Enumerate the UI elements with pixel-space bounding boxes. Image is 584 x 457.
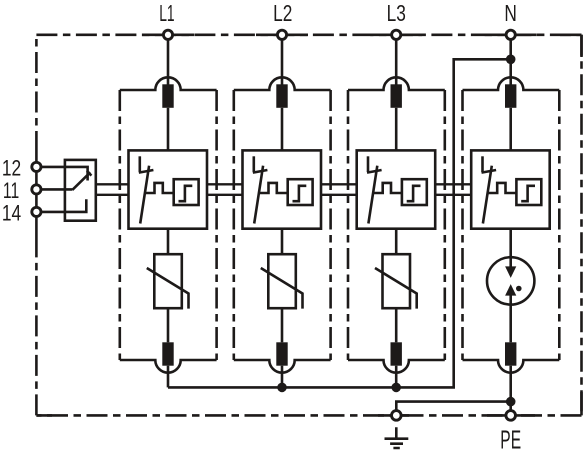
bottom disconnect element (filled) of N <box>505 342 516 365</box>
switch blade inside U4 <box>483 166 492 224</box>
module L1 boundary top edge with arc <box>120 77 217 90</box>
wire disconnect element to disconnector box N <box>509 108 512 151</box>
trigger box inside U3 <box>402 179 427 205</box>
terminal circle L2 <box>277 30 286 39</box>
junction dot L3 on bus <box>391 383 401 393</box>
step-function glyph inside trigger box U1 <box>179 186 193 201</box>
junction dot N-PE link <box>506 397 516 407</box>
contact tick inside U3 <box>367 170 382 173</box>
svg-text:12: 12 <box>2 155 21 180</box>
module L2 boundary bottom edge with arc <box>234 360 331 373</box>
outer dash-dot enclosure border top <box>36 33 581 36</box>
step-function glyph inside trigger box U3 <box>407 186 421 201</box>
mechanical linkage double line U1 to U2 <box>207 184 243 195</box>
varistor RV2 body <box>268 254 296 308</box>
wire varistor RV1 to bottom disconnect element <box>167 308 170 342</box>
mechanical linkage double line S1 to U1 <box>96 184 129 195</box>
thermal disconnect element (top, filled) of L2 <box>276 84 287 108</box>
wire terminal 12 to contact <box>41 167 87 181</box>
trigger box inside U4 <box>516 179 541 205</box>
MODULE L2 <box>234 40 331 388</box>
terminal circle 11 <box>32 185 41 194</box>
bottom disconnect element (filled) of L1 <box>162 342 173 365</box>
wire bottom element L1 to neutral bus <box>167 366 170 388</box>
bottom disconnect element (filled) of L3 <box>391 342 402 365</box>
terminal circle 14 <box>32 207 41 216</box>
blade tip tick of S1 <box>87 171 92 176</box>
earth ground symbol <box>385 427 409 448</box>
ground terminal circle <box>392 411 402 421</box>
remote signalling contact box S1 <box>65 160 96 221</box>
step-function glyph inside trigger box U2 <box>293 186 307 201</box>
wire terminal 14 to contact <box>41 199 86 212</box>
varistor RV2 diagonal stroke with hook <box>261 268 303 309</box>
wire disconnector box to varistor RV3 <box>395 229 398 255</box>
wire spark gap F1 to bottom disconnect element <box>509 295 512 342</box>
varistor RV1 diagonal stroke with hook <box>147 268 189 309</box>
outer dash-dot enclosure border left <box>35 35 38 416</box>
module L1 boundary right side dash-dot <box>215 90 218 360</box>
svg-text:11: 11 <box>3 178 19 203</box>
wire disconnector box to varistor RV2 <box>281 229 284 255</box>
wire varistor RV2 to bottom disconnect element <box>281 308 284 342</box>
module N boundary left side dash-dot <box>461 90 464 360</box>
wire L3 terminal down to disconnect element <box>395 40 398 86</box>
thermal disconnect element (top, filled) of N <box>505 84 516 108</box>
PE link wire from ground terminal to N conductor <box>396 402 510 411</box>
bottom disconnect element (filled) of L2 <box>276 342 287 365</box>
wire terminal 11 to changeover blade <box>41 188 72 191</box>
svg-text:PE: PE <box>500 425 521 455</box>
wire L2 terminal down to disconnect element <box>281 40 284 86</box>
stepped actuation line inside U4 <box>488 183 517 193</box>
module N boundary top edge with arc <box>463 77 560 90</box>
wire disconnect element to disconnector box L2 <box>281 108 284 151</box>
mechanical linkage double line U3 to U4 <box>435 184 471 195</box>
terminal circle L1 <box>163 30 172 39</box>
disconnector device box U2 <box>243 150 322 228</box>
thermal disconnect element (top, filled) of L3 <box>391 84 402 108</box>
module L3 boundary top edge with arc <box>348 77 445 90</box>
spark gap F1 indicator dot <box>516 286 522 292</box>
outer dash-dot enclosure border bottom <box>36 414 581 417</box>
contact tick inside U4 <box>482 170 497 173</box>
fixed contact lead inside U3 <box>367 156 370 172</box>
wire L1 terminal down to disconnect element <box>167 40 170 86</box>
trigger box inside U2 <box>288 179 313 205</box>
module L1 boundary bottom edge with arc <box>120 360 217 373</box>
stepped actuation line inside U3 <box>373 183 402 193</box>
junction dot N conductor to bus <box>506 55 516 65</box>
contact tick inside U2 <box>253 170 268 173</box>
wire bottom element L2 to neutral bus <box>281 366 284 388</box>
svg-text:N: N <box>504 0 517 26</box>
outer border left solid segment through terminals 12/11/14 <box>35 152 38 240</box>
svg-text:L2: L2 <box>273 0 292 26</box>
step-function glyph inside trigger box U4 <box>521 186 535 201</box>
module L3 boundary left side dash-dot <box>347 90 350 360</box>
disconnector device box U3 <box>357 150 436 228</box>
switch blade inside U3 <box>368 166 377 224</box>
fixed contact lead inside U4 <box>481 156 484 172</box>
spark gap F1 circle (N-PE) <box>487 257 534 304</box>
neutral collecting bus from L1/L2/L3 varistor bottoms <box>168 59 511 387</box>
module L2 boundary right side dash-dot <box>329 90 332 360</box>
svg-text:L3: L3 <box>387 0 406 26</box>
disconnector device box U4 <box>471 150 550 228</box>
mechanical linkage double line U2 to U3 <box>321 184 357 195</box>
fixed contact lead inside U2 <box>253 156 256 172</box>
module L3 boundary right side dash-dot <box>443 90 446 360</box>
wire bottom element L3 to neutral bus <box>395 366 398 388</box>
wire disconnector box to spark gap F1 <box>509 229 512 267</box>
wire bottom element N down to PE terminal <box>509 366 512 411</box>
wire disconnect element to disconnector box L3 <box>395 108 398 151</box>
module L3 boundary bottom edge with arc <box>348 360 445 373</box>
thermal disconnect element (top, filled) of L1 <box>162 84 173 108</box>
switch blade inside U1 <box>140 166 149 224</box>
terminal circle L3 <box>392 30 401 39</box>
outer dash-dot enclosure border right <box>580 35 583 416</box>
varistor RV1 body <box>154 254 182 308</box>
fixed contact lead inside U1 <box>139 156 142 172</box>
terminal circle PE <box>506 411 516 421</box>
disconnector device box U1 <box>129 150 208 228</box>
switch blade inside U2 <box>254 166 263 224</box>
MODULE L3 <box>348 40 445 388</box>
module L1 boundary left side dash-dot <box>119 90 122 360</box>
spark gap F1 upper arrowhead <box>505 266 516 278</box>
svg-text:L1: L1 <box>159 0 174 26</box>
terminal circle N <box>506 30 515 39</box>
junction dot L2 on bus <box>277 383 287 393</box>
module N boundary bottom edge with arc <box>463 360 560 373</box>
wire disconnector box to varistor RV1 <box>167 229 170 255</box>
module N boundary right side dash-dot <box>558 90 561 360</box>
MODULE L1 <box>120 40 217 388</box>
changeover blade of S1 <box>72 172 90 190</box>
contact tick inside U1 <box>139 170 154 173</box>
stepped actuation line inside U2 <box>259 183 288 193</box>
wire N terminal down to disconnect element <box>509 40 512 86</box>
varistor RV3 diagonal stroke with hook <box>375 268 417 309</box>
module L2 boundary left side dash-dot <box>233 90 236 360</box>
wire disconnect element to disconnector box L1 <box>167 108 170 151</box>
terminal circle 12 <box>32 162 41 171</box>
module L2 boundary top edge with arc <box>234 77 331 90</box>
varistor RV3 body <box>383 254 411 308</box>
wire varistor RV3 to bottom disconnect element <box>395 308 398 342</box>
MODULE N <box>463 40 560 411</box>
stepped actuation line inside U1 <box>145 183 174 193</box>
solid border segments at terminals <box>36 35 581 416</box>
svg-text:14: 14 <box>2 201 21 226</box>
trigger box inside U1 <box>174 179 199 205</box>
spark gap F1 lower arrowhead <box>505 284 516 296</box>
